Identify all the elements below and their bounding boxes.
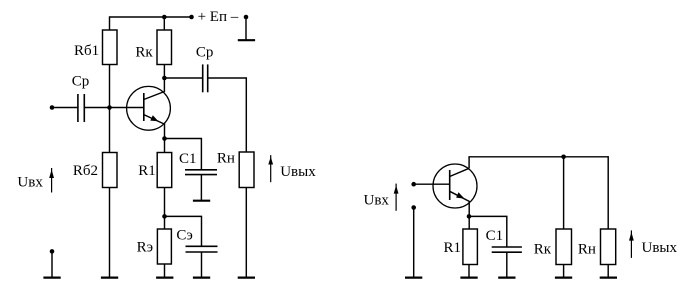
wire Rk bottom to collector bbox=[163, 65, 165, 93]
wire R61 top bbox=[109, 16, 111, 30]
arrow Uвых right bbox=[630, 230, 632, 258]
resistor Rк left bbox=[157, 30, 172, 65]
resistor Rб1 bbox=[103, 30, 118, 65]
svg-text:Uвых: Uвых bbox=[280, 164, 316, 180]
svg-text:Uвх: Uвх bbox=[364, 193, 390, 209]
transistor VT1 circle bbox=[127, 86, 171, 130]
node input right lower bbox=[411, 205, 416, 210]
svg-text:C1: C1 bbox=[486, 228, 504, 244]
node input lower left bbox=[50, 249, 55, 254]
wire R1 right to ground bbox=[468, 265, 470, 278]
node collector left bbox=[162, 76, 167, 81]
wire Rk top bbox=[163, 16, 165, 30]
wire C1 to its ground bbox=[200, 175, 202, 200]
svg-text:Rк: Rк bbox=[534, 241, 552, 257]
wire C1 right to ground bbox=[506, 252, 508, 277]
ground bar under R1 right bbox=[460, 277, 477, 279]
node Rк top bbox=[162, 15, 167, 20]
wire Rn to ground bbox=[245, 188, 247, 278]
capacitor C1 left plates bbox=[185, 169, 217, 171]
wire node2 to Cэ bbox=[165, 216, 202, 246]
resistor Rэ bbox=[157, 229, 171, 264]
ground bar under Rн right bbox=[600, 277, 617, 279]
resistor Rн right bbox=[601, 229, 616, 265]
wire emitter down to R1 bbox=[468, 202, 470, 230]
ground bar under C1 left bbox=[193, 200, 210, 202]
node 2 left bbox=[162, 214, 167, 219]
svg-text:Uвых: Uвых bbox=[642, 240, 678, 256]
node input left bbox=[50, 105, 55, 110]
wire Cэ to ground bbox=[201, 252, 203, 277]
svg-text:Rэ: Rэ bbox=[137, 240, 153, 256]
wire collector up to rail bbox=[468, 157, 470, 169]
wire Rн right column bbox=[607, 156, 609, 229]
transistor VT2 collector diagonal bbox=[450, 168, 469, 176]
ground bar under C1 right bbox=[498, 277, 515, 279]
svg-text:Cр: Cр bbox=[72, 74, 90, 90]
wire R61 bottom to R62 top bbox=[109, 65, 111, 153]
wire R62 to ground bbox=[109, 188, 111, 278]
node rail Rк right bbox=[561, 155, 566, 160]
capacitor Cэ plates bbox=[186, 245, 218, 247]
svg-text:Rб2: Rб2 bbox=[73, 163, 98, 179]
resistor R1 left bbox=[157, 153, 172, 188]
resistor Rб2 bbox=[103, 153, 118, 188]
wire Cp out to Rn column bbox=[208, 78, 247, 152]
transistor VT2 emitter arrow head bbox=[456, 192, 464, 198]
node base bbox=[107, 105, 112, 110]
svg-text:Cэ: Cэ bbox=[176, 228, 192, 244]
wire R1 bottom to node2 bbox=[164, 188, 166, 230]
wire emitter down bbox=[164, 124, 166, 153]
wire collector rail right bbox=[468, 156, 608, 158]
wire input to Cp bbox=[52, 107, 78, 109]
transistor VT2 circle bbox=[433, 164, 477, 208]
svg-text:R1: R1 bbox=[444, 240, 462, 256]
svg-text:Rн: Rн bbox=[217, 150, 235, 166]
svg-text:R1: R1 bbox=[138, 163, 156, 179]
ground bar under R62 bbox=[101, 277, 118, 279]
wire emitter node to C1 right bbox=[469, 216, 507, 247]
arrow Uвх right bbox=[395, 184, 397, 211]
wire Rэ to ground bbox=[164, 264, 166, 277]
svg-text:C1: C1 bbox=[179, 151, 197, 167]
ground bar top right bbox=[238, 39, 255, 41]
wire input lower terminal stub bbox=[51, 251, 53, 277]
ground bar right input bbox=[405, 277, 422, 279]
transistor VT1 collector diagonal bbox=[144, 92, 165, 100]
wire right input to base bbox=[414, 183, 450, 185]
resistor Rк right bbox=[556, 229, 572, 265]
svg-text:Rк: Rк bbox=[135, 44, 153, 60]
transistor VT2 base bar bbox=[449, 170, 451, 200]
node input right top bbox=[411, 182, 416, 187]
ground bar input lower bbox=[43, 277, 60, 279]
svg-text:Uвх: Uвх bbox=[17, 174, 43, 190]
capacitor C1 right plates bbox=[492, 246, 522, 248]
transistor VT2 emitter diagonal bbox=[450, 191, 470, 201]
arrow Uвх left bbox=[51, 168, 53, 193]
wire Rк right to ground bbox=[563, 265, 565, 278]
node emitter left bbox=[162, 136, 167, 141]
transistor VT1 emitter arrow head bbox=[150, 115, 158, 121]
wire Rк right column bbox=[563, 157, 565, 229]
ground bar under Cэ bbox=[193, 277, 210, 279]
transistor VT1 emitter diagonal bbox=[144, 115, 165, 125]
ground bar under Rн left bbox=[238, 277, 255, 279]
svg-text:Rб1: Rб1 bbox=[74, 43, 99, 59]
ground bar under Rэ bbox=[156, 277, 173, 279]
resistor Rн left bbox=[239, 152, 254, 188]
node emitter right bbox=[467, 214, 472, 219]
capacitor Cp output plates bbox=[202, 64, 204, 92]
wire Rн right to ground bbox=[607, 265, 609, 278]
ground bar under Rк right bbox=[555, 277, 572, 279]
wire top rail bbox=[110, 16, 192, 18]
wire Cp to base bbox=[84, 107, 144, 109]
wire collector row to Cp out bbox=[164, 77, 202, 79]
svg-text:Cр: Cр bbox=[196, 45, 214, 61]
wire +Ep right terminal stub bbox=[245, 17, 247, 40]
svg-text:+ Еп –: + Еп – bbox=[198, 9, 239, 25]
node rail end bbox=[189, 15, 194, 20]
node +Ep right bbox=[244, 15, 249, 20]
svg-text:Rн: Rн bbox=[578, 241, 596, 257]
resistor R1 right bbox=[463, 229, 478, 265]
wire emitter node to C1 bbox=[165, 139, 202, 170]
wire right input lower stub bbox=[413, 208, 415, 278]
capacitor Cp input plates bbox=[77, 94, 79, 122]
arrow Uвых left bbox=[270, 155, 272, 182]
transistor VT1 base bar bbox=[143, 93, 145, 121]
